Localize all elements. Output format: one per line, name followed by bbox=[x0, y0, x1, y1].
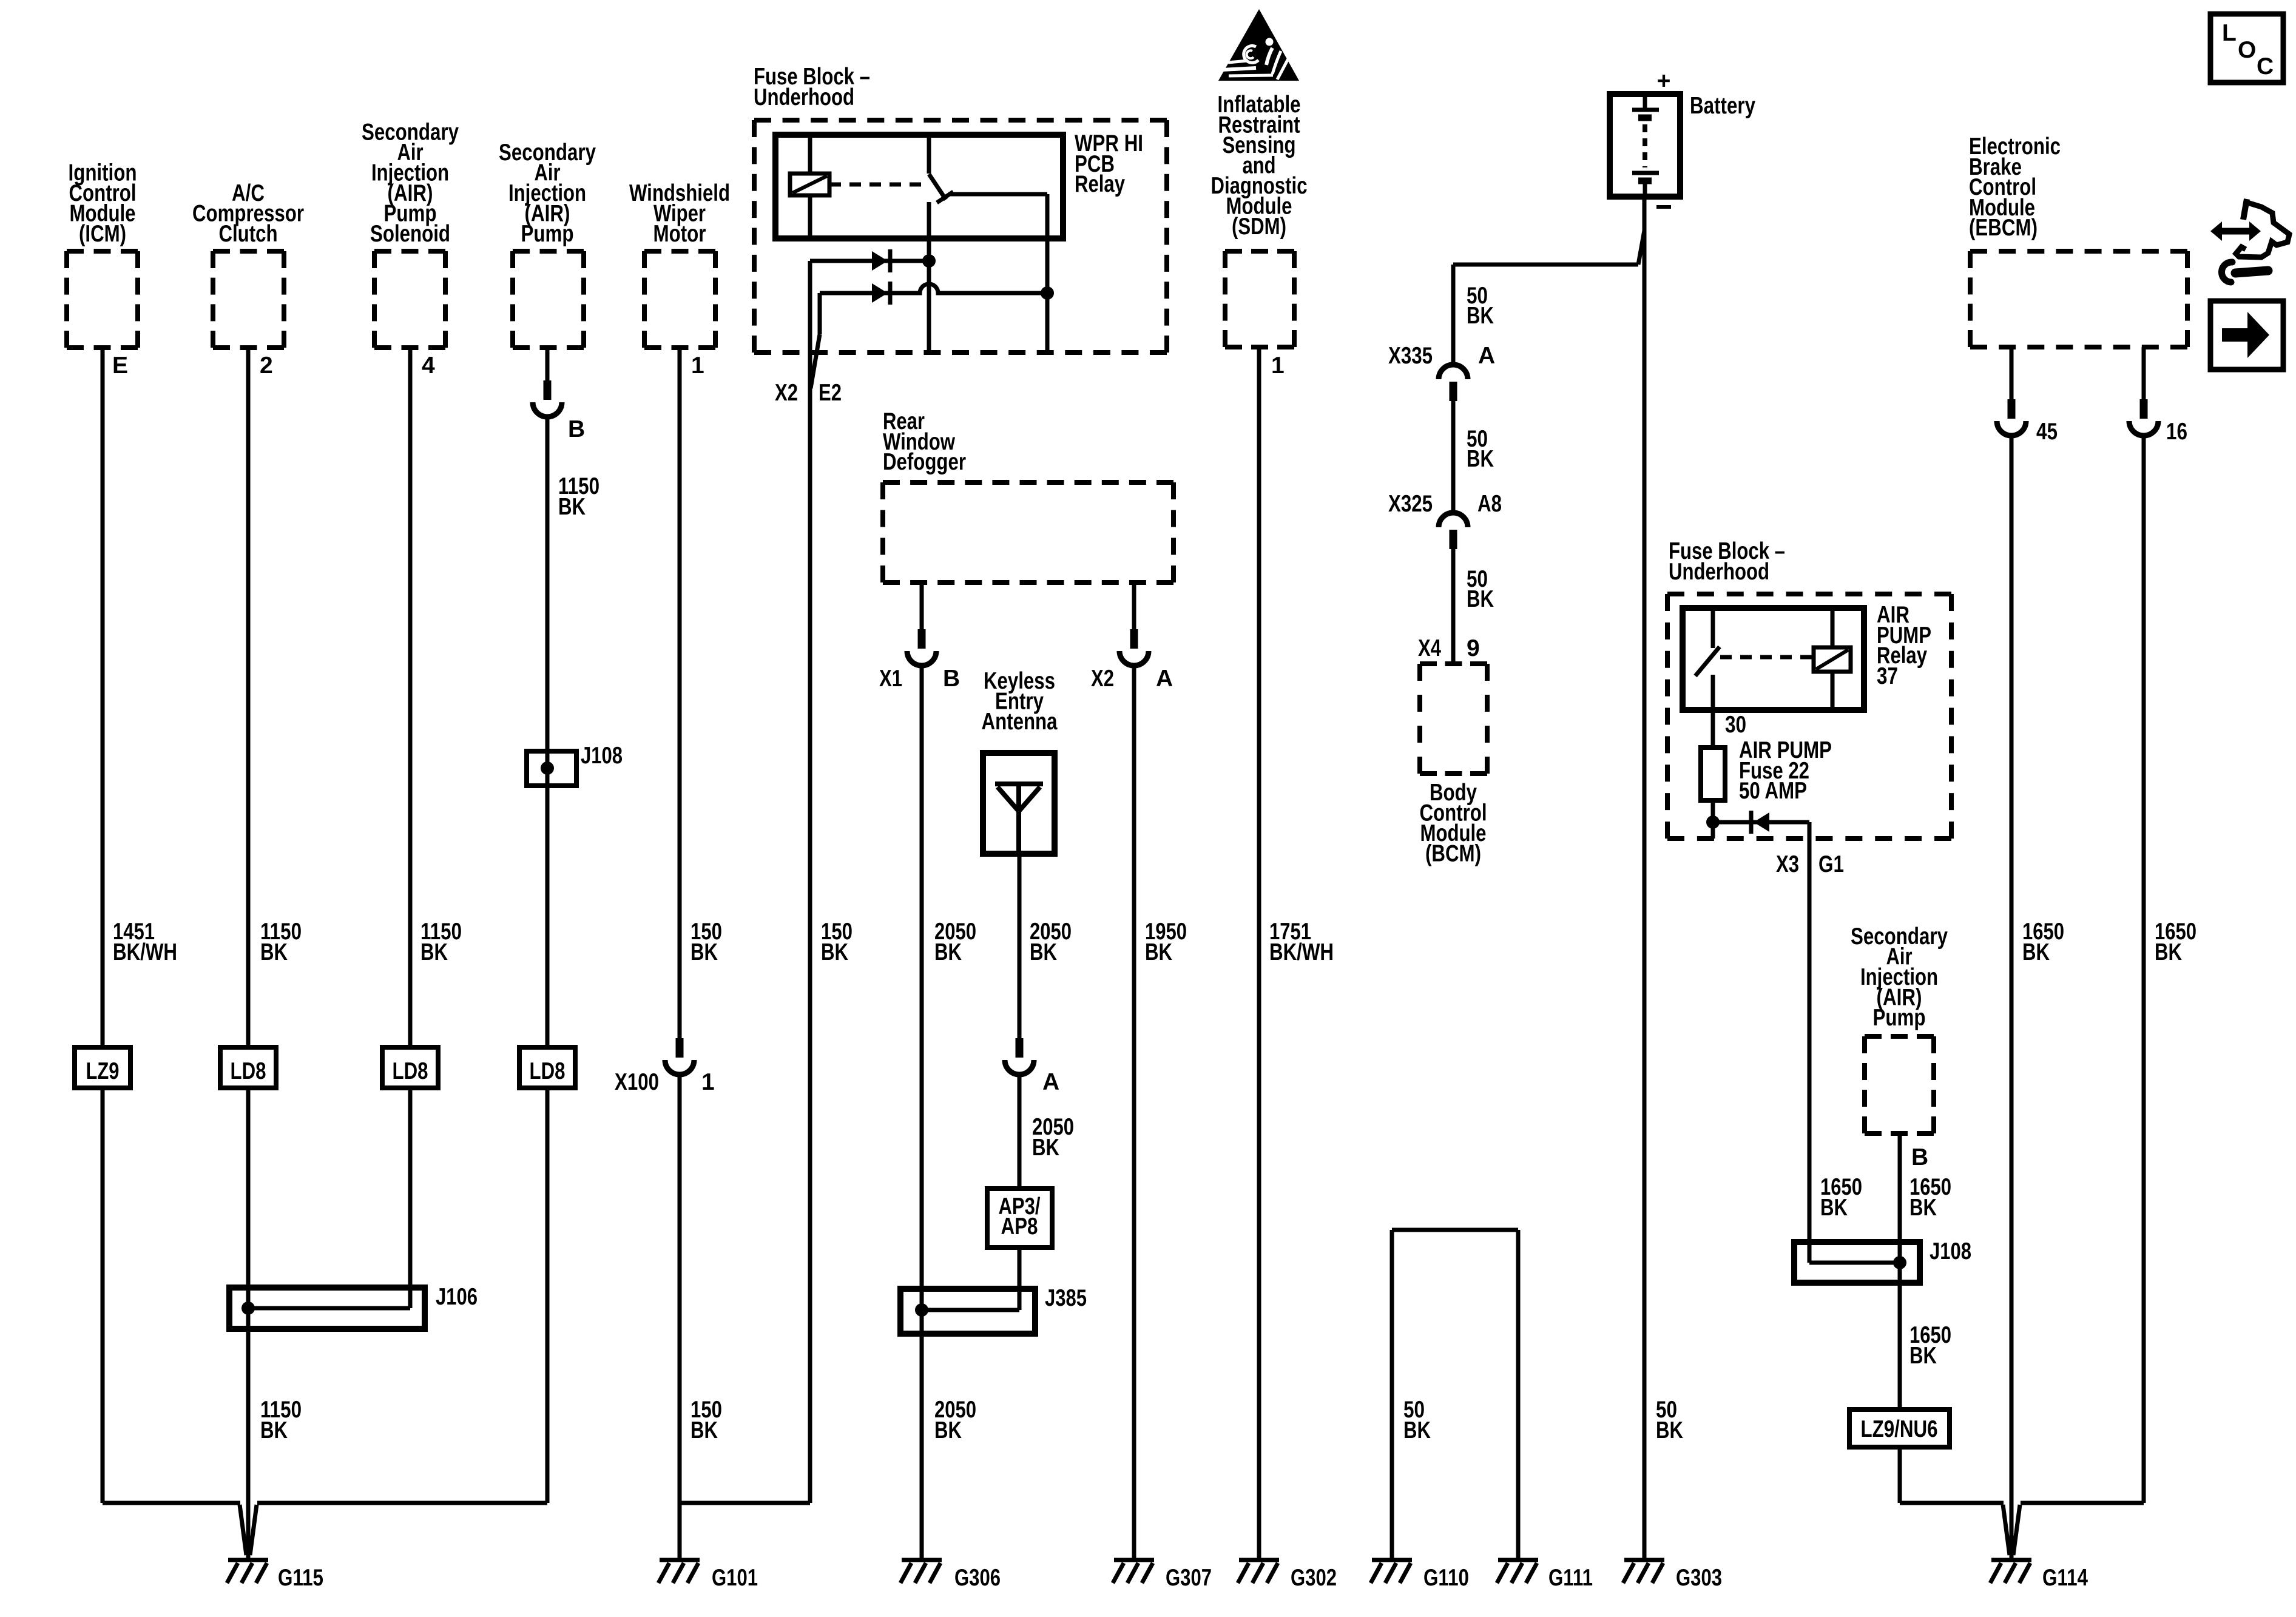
wire X335 to X325 bbox=[1451, 401, 1456, 513]
Windshield Wiper Motor label bbox=[629, 180, 730, 247]
crow foot junction into G114 bbox=[2003, 1505, 2020, 1555]
svg-text:1: 1 bbox=[701, 1069, 715, 1095]
ground label G101 bbox=[712, 1565, 758, 1591]
wire label 1150 BK bbox=[420, 919, 462, 965]
wire wiper motor down to connector X100 bbox=[678, 348, 682, 1038]
wire label 50 BK middle bbox=[1467, 426, 1494, 472]
wire label 50 BK G303 bbox=[1656, 1397, 1683, 1443]
svg-text:G303: G303 bbox=[1676, 1565, 1722, 1591]
wire EBCM pin 45 down to ground G114 bbox=[2010, 436, 2014, 1558]
connector B pin and cup bbox=[533, 380, 562, 417]
wire defogger X1 stub bbox=[920, 582, 924, 629]
fuse block underhood dashed box bbox=[754, 120, 1167, 353]
svg-text:4: 4 bbox=[422, 353, 435, 379]
connector X1 pin and cup bbox=[907, 629, 936, 666]
svg-text:BK: BK bbox=[1467, 303, 1494, 329]
svg-text:G115: G115 bbox=[278, 1565, 323, 1591]
svg-text:BK: BK bbox=[260, 1417, 288, 1443]
ground label G307 bbox=[1166, 1565, 1212, 1591]
ground label G306 bbox=[954, 1565, 1001, 1591]
Fuse Block Underhood label bbox=[754, 64, 870, 110]
ground symbol G302 bbox=[1238, 1560, 1279, 1583]
connector X325 label bbox=[1388, 491, 1433, 517]
wire label 1751 BK/WH bbox=[1269, 919, 1334, 965]
wire fuse down to junction bbox=[1711, 800, 1715, 839]
wire label 1650 BK X3 wire bbox=[1820, 1174, 1862, 1221]
svg-text:O: O bbox=[2238, 37, 2256, 63]
Keyless Entry Antenna box bbox=[983, 753, 1055, 854]
WPR HI PCB Relay label bbox=[1075, 130, 1143, 197]
svg-text:BK: BK bbox=[690, 1417, 718, 1443]
ground symbol G101 bbox=[658, 1560, 700, 1583]
wire connector B down to ground bus bbox=[545, 417, 550, 1503]
AIR PUMP Fuse 22 50 AMP label bbox=[1739, 737, 1832, 804]
svg-text:(BCM): (BCM) bbox=[1425, 841, 1481, 867]
svg-text:9: 9 bbox=[1467, 635, 1480, 661]
ground label G110 bbox=[1423, 1565, 1469, 1591]
relay coil symbol bbox=[790, 174, 829, 195]
wire label 150 BK upper bbox=[690, 919, 722, 965]
pin 2 label bbox=[260, 353, 273, 379]
option code box LD8 second bbox=[382, 1047, 438, 1088]
wire label 2050 BK antenna lower bbox=[1032, 1114, 1074, 1161]
ground symbol G111 bbox=[1497, 1560, 1538, 1583]
battery cell symbols bbox=[1632, 97, 1659, 194]
svg-text:+: + bbox=[1657, 68, 1671, 94]
svg-text:J108: J108 bbox=[581, 743, 623, 769]
wire X100 down to ground G101 bbox=[678, 1075, 682, 1558]
relay coil connection wires bbox=[808, 135, 812, 238]
Secondary AIR pump right dashed box bbox=[1865, 1036, 1934, 1133]
svg-text:BK: BK bbox=[690, 939, 718, 965]
ground bus wire from fuse block wire to G101 bbox=[680, 1501, 810, 1505]
svg-text:B: B bbox=[1911, 1144, 1928, 1170]
splice J385 label bbox=[1045, 1285, 1087, 1311]
svg-text:(SDM): (SDM) bbox=[1232, 214, 1286, 240]
relay common wire down bbox=[927, 202, 931, 353]
AIR pump dashed box bbox=[513, 251, 584, 348]
diagnostic arrows and wrench icon bbox=[2210, 199, 2289, 282]
svg-text:X2: X2 bbox=[775, 380, 798, 406]
wire AP3 AP8 down into splice J385 bbox=[1018, 1247, 1022, 1310]
svg-text:BK: BK bbox=[260, 939, 288, 965]
wire2 left end down merge bbox=[811, 293, 820, 388]
ground symbol G306 bbox=[900, 1560, 942, 1583]
LOC reference box bbox=[2210, 14, 2283, 83]
wire X325 to BCM pin 9 bbox=[1451, 549, 1456, 664]
terminal E2 label at fuse block bbox=[819, 380, 842, 406]
svg-text:X1: X1 bbox=[879, 666, 902, 692]
svg-text:A: A bbox=[1156, 666, 1173, 692]
ground symbol G114 bbox=[1990, 1560, 2031, 1583]
ground symbol G307 bbox=[1113, 1560, 1154, 1583]
ground label G302 bbox=[1291, 1565, 1337, 1591]
svg-text:G111: G111 bbox=[1548, 1565, 1593, 1591]
wire label 1451 BK/WH bbox=[113, 919, 177, 965]
ground bus wire right side right segment bbox=[2021, 1501, 2144, 1505]
battery box bbox=[1610, 94, 1680, 197]
terminal A label antenna bbox=[1042, 1069, 1059, 1095]
wire defogger X2 stub bbox=[1132, 582, 1136, 629]
svg-text:X100: X100 bbox=[615, 1069, 659, 1095]
ground symbol G115 bbox=[227, 1560, 268, 1583]
svg-text:G114: G114 bbox=[2042, 1565, 2088, 1591]
wire battery negative down to ground G303 bbox=[1643, 197, 1647, 1558]
svg-text:G110: G110 bbox=[1423, 1565, 1469, 1591]
wire label 150 BK lower bbox=[690, 1397, 722, 1443]
connector X2 label at fuse block bbox=[775, 380, 798, 406]
Rear Window Defogger dashed box bbox=[883, 482, 1173, 582]
wire ICM pin E down to ground bus bbox=[101, 348, 105, 1503]
relay AIR PUMP switch wire bbox=[1711, 608, 1715, 648]
svg-text:Solenoid: Solenoid bbox=[370, 221, 450, 247]
ground symbol G110 bbox=[1371, 1560, 1412, 1583]
splice J108 right box bbox=[1794, 1242, 1920, 1283]
Body Control Module BCM dashed box bbox=[1420, 664, 1487, 774]
svg-text:J108: J108 bbox=[1930, 1238, 1971, 1264]
svg-text:BK: BK bbox=[1467, 586, 1494, 612]
ground label G114 bbox=[2042, 1565, 2088, 1591]
fuse block underhood right dashed box bbox=[1667, 594, 1951, 839]
pin 16 label bbox=[2166, 419, 2187, 445]
option code box LD8 third bbox=[519, 1047, 575, 1088]
svg-text:Battery: Battery bbox=[1690, 93, 1755, 119]
svg-text:L: L bbox=[2222, 20, 2237, 46]
svg-text:G101: G101 bbox=[712, 1565, 758, 1591]
ground bus wire right segment bbox=[257, 1501, 547, 1505]
svg-text:BK: BK bbox=[558, 494, 586, 520]
wire battery branch down to X335 bbox=[1451, 265, 1456, 365]
svg-text:BK: BK bbox=[1032, 1135, 1059, 1161]
Fuse Block Underhood label right bbox=[1669, 538, 1785, 585]
wire label 1150 BK lower bbox=[260, 1397, 302, 1443]
svg-text:X2: X2 bbox=[1091, 666, 1114, 692]
splice J106 box bbox=[229, 1288, 425, 1329]
fuse AIR PUMP 22 symbol bbox=[1701, 748, 1725, 800]
svg-text:E2: E2 bbox=[819, 380, 842, 406]
splice J108 right label bbox=[1930, 1238, 1971, 1264]
pin 1 label wiper bbox=[691, 353, 704, 379]
svg-text:LZ9: LZ9 bbox=[86, 1058, 120, 1084]
connector A pin and cup antenna bbox=[1005, 1038, 1034, 1075]
wire defogger X1 down to ground G306 bbox=[920, 666, 924, 1558]
svg-text:BK/WH: BK/WH bbox=[113, 939, 177, 965]
svg-text:Clutch: Clutch bbox=[219, 221, 278, 247]
arrow box icon bbox=[2210, 301, 2283, 370]
svg-text:BK: BK bbox=[1656, 1417, 1683, 1443]
junction dot below fuse bbox=[1706, 815, 1720, 829]
option code box AP3 AP8 bbox=[987, 1189, 1052, 1247]
terminal A label X335 bbox=[1478, 343, 1495, 369]
svg-text:50 AMP: 50 AMP bbox=[1739, 778, 1807, 804]
wire label 50 BK lower bbox=[1467, 566, 1494, 612]
wire label 1950 BK bbox=[1145, 919, 1187, 965]
svg-text:Underhood: Underhood bbox=[1669, 559, 1769, 585]
wire EBCM pin 16 stub bbox=[2142, 347, 2146, 399]
wire label 1650 BK EBCM right bbox=[2155, 919, 2196, 965]
svg-text:G306: G306 bbox=[954, 1565, 1001, 1591]
wire branch from battery to X335 bbox=[1453, 231, 1644, 265]
ground symbol G303 bbox=[1623, 1560, 1664, 1583]
relay AIR PUMP coil connection wires bbox=[1831, 608, 1835, 710]
A/C Compressor Clutch label bbox=[192, 180, 304, 247]
svg-text:BK: BK bbox=[821, 939, 848, 965]
svg-text:Motor: Motor bbox=[653, 221, 706, 247]
relay AIR PUMP common wire down bbox=[1711, 675, 1715, 748]
wire SDM pin 1 down to ground G302 bbox=[1257, 347, 1261, 1558]
option code box LD8 first bbox=[220, 1047, 276, 1088]
Windshield Wiper Motor dashed box bbox=[644, 251, 715, 348]
diode to X3 G1 output bbox=[1751, 811, 1769, 834]
svg-text:A: A bbox=[1042, 1069, 1059, 1095]
relay actuation dashed link bbox=[829, 183, 923, 187]
svg-text:BK: BK bbox=[1909, 1343, 1937, 1369]
junction dot wire2 and right output bbox=[1041, 286, 1054, 300]
wire EBCM pin 45 stub bbox=[2010, 347, 2014, 399]
wire fuse block output X2 E2 down to ground bus bbox=[808, 261, 812, 1503]
EBCM dashed box bbox=[1970, 251, 2187, 347]
ground bus wire right side left segment bbox=[1900, 1501, 2004, 1505]
option code box LZ9/NU6 bbox=[1849, 1409, 1950, 1447]
svg-text:BK: BK bbox=[1909, 1195, 1937, 1221]
Ignition Control Module (ICM) label bbox=[69, 160, 137, 248]
wire AIR solenoid pin 4 to splice J106 bbox=[408, 348, 413, 1308]
Rear Window Defogger label bbox=[883, 408, 966, 475]
relay switch blade bbox=[929, 174, 953, 203]
svg-text:BK: BK bbox=[1145, 939, 1172, 965]
SDM dashed box bbox=[1225, 251, 1294, 347]
AIR pump solenoid dashed box bbox=[374, 251, 445, 348]
splice J108 label bbox=[581, 743, 623, 769]
svg-text:LD8: LD8 bbox=[393, 1058, 428, 1084]
connector pin 16 cup bbox=[2129, 399, 2158, 436]
Secondary Air Injection (AIR) Pump Solenoid label bbox=[362, 120, 459, 248]
A/C Compressor Clutch dashed box bbox=[213, 251, 284, 348]
pin 45 label bbox=[2036, 419, 2058, 445]
svg-text:1: 1 bbox=[691, 353, 704, 379]
wire antenna connector down to AP3 AP8 bbox=[1018, 1075, 1022, 1189]
svg-text:Defogger: Defogger bbox=[883, 449, 966, 475]
minus terminal label bbox=[1656, 205, 1671, 209]
connector X2 pin and cup bbox=[1119, 629, 1149, 666]
diode 1 in fuse block bbox=[872, 249, 890, 272]
wire junction to X3 G1 output bbox=[1713, 822, 1809, 839]
svg-text:LD8: LD8 bbox=[530, 1058, 566, 1084]
airbag warning triangle icon bbox=[1218, 9, 1299, 81]
svg-text:1: 1 bbox=[1271, 353, 1285, 379]
wire right pump pin B down to ground bus bbox=[1898, 1133, 1902, 1503]
connector X100 pin 1 label bbox=[701, 1069, 715, 1095]
terminal A label defogger bbox=[1156, 666, 1173, 692]
pin B label bbox=[568, 416, 585, 442]
wire label 1150 BK at connector bbox=[558, 473, 599, 520]
terminal B label defogger bbox=[943, 666, 960, 692]
terminal A8 label X325 bbox=[1477, 491, 1502, 517]
svg-text:16: 16 bbox=[2166, 419, 2187, 445]
terminal G1 label bbox=[1818, 851, 1844, 877]
svg-text:G307: G307 bbox=[1166, 1565, 1212, 1591]
option code box LZ9 bbox=[75, 1047, 130, 1088]
wire label 2050 BK left upper bbox=[934, 919, 976, 965]
pin B label right pump bbox=[1911, 1144, 1928, 1170]
ICM component dashed box bbox=[67, 251, 138, 348]
wire label 50 BK G110 bbox=[1403, 1397, 1431, 1443]
svg-text:Antenna: Antenna bbox=[982, 709, 1058, 735]
relay switch output wire to right bbox=[948, 192, 1047, 197]
svg-text:Pump: Pump bbox=[1873, 1005, 1926, 1031]
wire label 1650 BK pump wire bbox=[1909, 1174, 1951, 1221]
svg-text:Underhood: Underhood bbox=[754, 84, 854, 110]
svg-text:Pump: Pump bbox=[521, 221, 574, 247]
Inflatable Restraint Sensing and Diagnostic Module SDM label bbox=[1211, 92, 1308, 240]
wire defogger X2 down to ground G307 bbox=[1132, 666, 1136, 1558]
diode 2 in fuse block bbox=[872, 282, 890, 305]
Secondary Air Injection (AIR) Pump label bbox=[499, 140, 596, 247]
pin 4 label bbox=[422, 353, 435, 379]
wire BCM ground loop bbox=[1392, 1230, 1518, 1558]
ground bus wire left segment bbox=[103, 1501, 240, 1505]
svg-text:Relay: Relay bbox=[1075, 171, 1125, 197]
connector X100 pin and cup bbox=[665, 1038, 694, 1075]
svg-text:BK: BK bbox=[2155, 939, 2182, 965]
Electronic Brake Control Module EBCM label bbox=[1969, 133, 2061, 241]
antenna symbol bbox=[995, 784, 1043, 854]
splice J108 box on AIR pump wire bbox=[527, 751, 576, 786]
wire X3 G1 down to splice J108 bbox=[1808, 839, 1812, 1263]
connector X3 label bbox=[1776, 851, 1799, 877]
pin E label bbox=[112, 353, 128, 379]
svg-text:X335: X335 bbox=[1388, 343, 1433, 369]
svg-text:(EBCM): (EBCM) bbox=[1969, 215, 2038, 241]
svg-text:2: 2 bbox=[260, 353, 273, 379]
svg-text:J106: J106 bbox=[436, 1284, 478, 1310]
Battery label bbox=[1690, 93, 1755, 119]
pin 1 label SDM bbox=[1271, 353, 1285, 379]
ground label G111 bbox=[1548, 1565, 1593, 1591]
plus terminal label bbox=[1657, 68, 1671, 94]
connector X335 label bbox=[1388, 343, 1433, 369]
junction dot wire1 and common bbox=[922, 254, 936, 268]
svg-text:E: E bbox=[112, 353, 128, 379]
Body Control Module BCM label bbox=[1420, 780, 1487, 867]
connector X4 label bbox=[1418, 635, 1441, 661]
svg-text:C: C bbox=[2257, 53, 2274, 79]
svg-text:B: B bbox=[943, 666, 960, 692]
wire label 1650 BK EBCM left bbox=[2022, 919, 2064, 965]
connector X1 label bbox=[879, 666, 902, 692]
svg-text:BK: BK bbox=[1030, 939, 1057, 965]
relay WPR HI PCB outline bbox=[775, 135, 1063, 238]
svg-text:(ICM): (ICM) bbox=[79, 221, 126, 247]
svg-text:37: 37 bbox=[1877, 663, 1898, 689]
relay AIR PUMP coil symbol bbox=[1814, 647, 1851, 672]
relay AIR PUMP switch blade bbox=[1695, 647, 1720, 676]
wire label 2050 BK antenna upper bbox=[1030, 919, 1072, 965]
svg-text:45: 45 bbox=[2036, 419, 2058, 445]
svg-text:BK: BK bbox=[1820, 1195, 1848, 1221]
ground label G115 bbox=[278, 1565, 323, 1591]
wire label 1650 BK below splice bbox=[1909, 1322, 1951, 1369]
connector X100 label bbox=[615, 1069, 659, 1095]
svg-text:G302: G302 bbox=[1291, 1565, 1337, 1591]
relay AIR PUMP dashed link bbox=[1720, 655, 1814, 660]
wire diode 2 horizontal with hop bbox=[820, 284, 1047, 293]
svg-text:LZ9/NU6: LZ9/NU6 bbox=[1861, 1416, 1938, 1442]
pin 30 label bbox=[1725, 712, 1746, 738]
wire A/C clutch pin 2 to ground G115 bbox=[246, 348, 251, 1558]
svg-text:BK: BK bbox=[1467, 446, 1494, 472]
pin 9 label BCM bbox=[1467, 635, 1480, 661]
svg-text:B: B bbox=[568, 416, 585, 442]
wire antenna down to connector A bbox=[1018, 854, 1022, 1038]
svg-text:J385: J385 bbox=[1045, 1285, 1087, 1311]
svg-text:BK: BK bbox=[934, 1417, 962, 1443]
svg-text:G1: G1 bbox=[1818, 851, 1844, 877]
wire label 2050 BK left lower bbox=[934, 1397, 976, 1443]
wire label 1150 BK upper bbox=[260, 919, 302, 965]
svg-text:A: A bbox=[1478, 343, 1495, 369]
wire label 50 BK battery branch bbox=[1467, 283, 1494, 329]
svg-text:BK/WH: BK/WH bbox=[1269, 939, 1334, 965]
relay right output wire down bbox=[1045, 194, 1050, 353]
wire diode 1 horizontal bbox=[810, 259, 929, 263]
relay AIR PUMP outline bbox=[1683, 608, 1864, 710]
ground label G303 bbox=[1676, 1565, 1722, 1591]
svg-text:BK: BK bbox=[934, 939, 962, 965]
Keyless Entry Antenna label bbox=[982, 668, 1058, 735]
svg-text:X325: X325 bbox=[1388, 491, 1433, 517]
svg-text:BK: BK bbox=[1403, 1417, 1431, 1443]
svg-text:X3: X3 bbox=[1776, 851, 1799, 877]
connector X2 label defogger bbox=[1091, 666, 1114, 692]
wire EBCM pin 16 down to ground bus bbox=[2142, 436, 2146, 1503]
svg-text:X4: X4 bbox=[1418, 635, 1441, 661]
connector X335 dome and pin bbox=[1439, 365, 1468, 401]
svg-text:30: 30 bbox=[1725, 712, 1746, 738]
svg-text:AP8: AP8 bbox=[1001, 1214, 1038, 1240]
AIR PUMP Relay 37 label bbox=[1877, 602, 1931, 689]
connector X325 dome and pin bbox=[1439, 513, 1468, 549]
Secondary Air Injection AIR Pump right label bbox=[1851, 923, 1948, 1031]
svg-text:A8: A8 bbox=[1477, 491, 1502, 517]
crow foot junction into G115 bbox=[240, 1505, 257, 1555]
splice J385 box bbox=[900, 1289, 1035, 1334]
connector pin 45 cup bbox=[1997, 399, 2026, 436]
svg-text:BK: BK bbox=[2022, 939, 2050, 965]
relay switch fixed contact wire bbox=[927, 135, 931, 174]
svg-text:BK: BK bbox=[420, 939, 448, 965]
wire AIR pump to connector B bbox=[545, 348, 550, 380]
svg-text:LD8: LD8 bbox=[231, 1058, 266, 1084]
wire label 150 BK fuse block wire bbox=[821, 919, 853, 965]
splice J106 label bbox=[436, 1284, 478, 1310]
